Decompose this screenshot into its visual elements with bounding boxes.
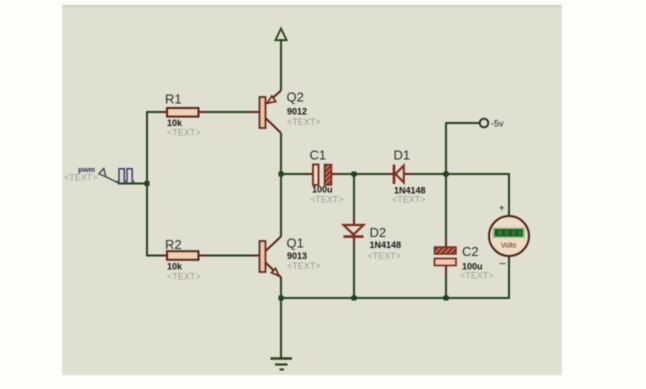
- svg-text:<TEXT>: <TEXT>: [167, 128, 201, 138]
- svg-text:-5v: -5v: [491, 119, 504, 129]
- svg-text:9012: 9012: [287, 106, 307, 116]
- svg-text:<TEXT>: <TEXT>: [64, 173, 98, 183]
- svg-text:Volts: Volts: [501, 240, 517, 249]
- svg-text:+: +: [499, 203, 505, 214]
- svg-text:<TEXT>: <TEXT>: [460, 271, 494, 281]
- svg-text:<TEXT>: <TEXT>: [287, 261, 321, 271]
- svg-text:–: –: [499, 258, 506, 270]
- svg-text:<TEXT>: <TEXT>: [287, 117, 321, 127]
- svg-text:<TEXT>: <TEXT>: [310, 195, 344, 205]
- svg-text:D1: D1: [394, 148, 411, 163]
- svg-text:D2: D2: [370, 225, 387, 240]
- svg-text:R1: R1: [165, 92, 182, 107]
- svg-text:R2: R2: [165, 237, 182, 252]
- svg-text:1N4148: 1N4148: [370, 240, 402, 250]
- svg-text:Q2: Q2: [287, 90, 304, 105]
- svg-text:Q1: Q1: [287, 235, 304, 250]
- svg-text:C2: C2: [462, 244, 479, 259]
- svg-text:pwm: pwm: [78, 165, 95, 174]
- svg-text:9013: 9013: [287, 251, 307, 261]
- svg-text:<TEXT>: <TEXT>: [392, 195, 426, 205]
- svg-text:<TEXT>: <TEXT>: [167, 271, 201, 281]
- svg-text:C1: C1: [310, 148, 327, 163]
- svg-text:100u: 100u: [312, 185, 333, 195]
- svg-text:10k: 10k: [167, 118, 183, 128]
- svg-text:10k: 10k: [167, 261, 183, 271]
- svg-text:<TEXT>: <TEXT>: [368, 251, 402, 261]
